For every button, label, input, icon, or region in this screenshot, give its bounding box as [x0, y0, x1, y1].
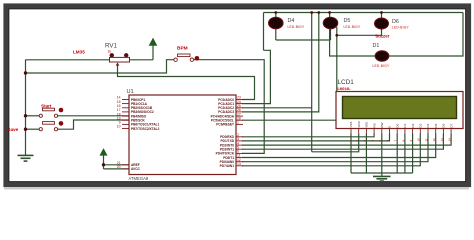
svg-text:D7: D7 — [449, 123, 453, 127]
U1 left pin names — [131, 98, 160, 171]
svg-text:VEE: VEE — [365, 122, 369, 128]
wire lcd d2 down — [412, 134, 414, 174]
wire row A LM35/pot net — [26, 59, 154, 61]
svg-text:LCD1: LCD1 — [338, 79, 355, 86]
microcontroller U1 ATMEGA8 — [127, 89, 237, 181]
LED D1 — [373, 43, 391, 68]
LED D5 — [323, 17, 361, 29]
outer dark frame — [6, 6, 469, 185]
wire D6 vertical — [337, 13, 382, 36]
svg-text:LED-BIGY: LED-BIGY — [288, 25, 306, 29]
LED D6 — [375, 18, 410, 30]
svg-text:RS: RS — [372, 123, 376, 127]
wire e to PD1 — [242, 134, 390, 141]
svg-text:RW: RW — [380, 122, 384, 127]
svg-text:D6: D6 — [442, 123, 446, 127]
wire lcd vss down — [350, 134, 352, 174]
wire gnd bus lcd — [351, 172, 413, 174]
LCD LCD1 LM016L — [336, 79, 463, 128]
U1 right pin numbers — [237, 96, 241, 166]
wire rail to PC2 — [311, 13, 313, 152]
wire rs to PD0 — [242, 134, 374, 137]
svg-text:12: 12 — [432, 138, 436, 142]
svg-text:PD7/AIN1: PD7/AIN1 — [220, 164, 235, 168]
svg-text:D3: D3 — [419, 123, 423, 127]
button BPM — [174, 45, 199, 61]
svg-text:LED-BIGY: LED-BIGY — [344, 25, 362, 29]
svg-text:LM35: LM35 — [73, 50, 85, 55]
wire rail to PC3 — [242, 13, 319, 112]
power arrow vcc — [149, 38, 157, 45]
LED D4 — [269, 17, 306, 29]
svg-text:1: 1 — [237, 121, 239, 125]
wire vdd feed — [312, 134, 359, 152]
wire D5 vertical — [330, 23, 332, 40]
wire lcd d0 down — [396, 134, 398, 174]
wire D4 cathode row — [276, 39, 331, 41]
potentiometer RV1 — [105, 43, 130, 66]
U1 left pin numbers — [117, 96, 121, 169]
wire pot wiper to PC0 — [118, 65, 255, 100]
svg-text:ATMEGA8: ATMEGA8 — [129, 176, 149, 181]
svg-text:D4: D4 — [426, 123, 430, 127]
wire start button left — [26, 115, 40, 117]
svg-text:Save: Save — [8, 127, 19, 132]
wire row B gnd to BPM left — [26, 60, 175, 73]
wire save button jog to PB5 — [58, 120, 130, 129]
wire lcd d7 to PD2 — [242, 134, 451, 146]
wire save button left — [26, 128, 40, 130]
svg-text:14: 14 — [448, 138, 452, 142]
svg-text:D4: D4 — [288, 18, 295, 24]
wire D4 vertical — [275, 13, 277, 41]
svg-text:D5: D5 — [344, 18, 351, 24]
wire top rail — [264, 12, 464, 14]
button Start — [39, 104, 63, 118]
svg-text:PB7/TOSC2/XTAL2: PB7/TOSC2/XTAL2 — [131, 127, 160, 131]
ground lcd — [373, 176, 391, 181]
svg-text:1k: 1k — [108, 49, 112, 53]
wire start button to PB4 — [58, 115, 130, 117]
wire avcc aref stem — [103, 155, 105, 169]
svg-text:D0: D0 — [395, 123, 399, 127]
svg-text:D2: D2 — [411, 123, 415, 127]
svg-text:D1: D1 — [403, 123, 407, 127]
wire rail corner drop — [263, 13, 265, 51]
wire D1 anode riser — [330, 13, 376, 57]
svg-text:11: 11 — [424, 138, 428, 141]
svg-text:LM016L: LM016L — [338, 87, 352, 91]
LCD pin numbers — [347, 138, 451, 142]
svg-text:PC6/RESET: PC6/RESET — [216, 123, 234, 127]
wire D1 right to rail — [389, 13, 463, 57]
wire avcc — [104, 168, 130, 170]
wire aref — [104, 164, 130, 166]
wire gnd stem lcd — [381, 173, 383, 176]
svg-text:U1: U1 — [127, 89, 134, 95]
ground left — [18, 155, 34, 161]
wire D5 right to PC5 — [242, 27, 337, 120]
svg-text:D5: D5 — [434, 123, 438, 127]
svg-text:10: 10 — [417, 138, 421, 142]
svg-text:D6: D6 — [392, 19, 399, 25]
svg-text:D1: D1 — [373, 43, 380, 49]
svg-text:10: 10 — [117, 125, 121, 129]
svg-text:BPM: BPM — [177, 45, 188, 51]
svg-text:AVCC: AVCC — [131, 167, 140, 171]
LCD pin stubs — [351, 129, 451, 134]
wire PC2 row — [242, 107, 312, 109]
wire jog to PC1 — [242, 50, 270, 103]
button Save — [8, 121, 64, 132]
wire lcd rw down — [381, 134, 383, 174]
svg-text:13: 13 — [237, 162, 241, 166]
svg-text:LED-BIGY: LED-BIGY — [373, 64, 391, 68]
U1 left pin stubs — [122, 100, 129, 169]
U1 right pin stubs — [236, 100, 243, 166]
wire gnd rail vertical — [25, 60, 27, 156]
wire lcd d3 to PD7 — [242, 134, 420, 166]
wire lcd d1 down — [404, 134, 406, 174]
power arrow avcc — [100, 149, 107, 156]
svg-text:LED-BIGY: LED-BIGY — [392, 26, 410, 30]
svg-text:VSS: VSS — [349, 122, 353, 128]
svg-text:E: E — [388, 126, 392, 128]
wire lcd vee down — [365, 134, 367, 174]
wire lcd d6 to PD3 — [242, 134, 443, 150]
wire vcc arrow stem — [152, 45, 154, 60]
LCD pin name labels — [349, 120, 453, 127]
wire bpm to PD4 — [194, 60, 265, 154]
svg-text:13: 13 — [440, 138, 444, 142]
svg-text:buzzer: buzzer — [376, 34, 390, 39]
svg-text:20: 20 — [117, 165, 121, 169]
U1 right pin names — [211, 98, 235, 168]
svg-text:VDD: VDD — [357, 120, 361, 127]
wire lcd d5 to PD5 — [242, 134, 436, 158]
wire lcd d4 to PD6 — [242, 134, 428, 162]
